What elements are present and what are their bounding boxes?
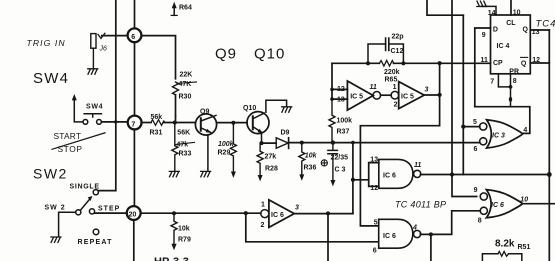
svg-text:SW2: SW2: [33, 166, 68, 182]
junction: down branch tee: [326, 211, 330, 215]
svg-text:R79: R79: [178, 237, 191, 244]
svg-text:6: 6: [474, 146, 478, 153]
wire: R31 to Q9 base: [164, 122, 195, 124]
wire: Q9 emitter to ground: [207, 135, 209, 171]
svg-text:TC40: TC40: [536, 18, 555, 29]
wire: IC6#1 tied inputs bracket: [369, 163, 379, 187]
wire: node 20 to bottom edge: [133, 220, 135, 261]
wire: right bus x=549.3 down to bottom: [548, 30, 550, 261]
svg-text:11: 11: [414, 162, 421, 169]
svg-text:IC 6: IC 6: [271, 212, 284, 219]
svg-text:7: 7: [131, 121, 135, 128]
resistor R65 220k: [379, 61, 394, 67]
SW2 arm: [80, 198, 90, 210]
capacitor C3 22/35 electrolytic: [332, 143, 334, 151]
svg-text:10: 10: [513, 10, 521, 17]
wire: IC5b output to node: [424, 94, 439, 96]
svg-text:5: 5: [374, 219, 378, 226]
wire: IC4 pin 7 strap: [498, 74, 510, 87]
svg-text:CP: CP: [493, 60, 503, 67]
wire: IC4 pin 10 to top edge: [510, 0, 512, 15]
svg-text:47k: 47k: [177, 141, 189, 148]
wire: node bus x=134.5 top edge to node 6: [134, 0, 136, 28]
wire: PR/IC3-output rail: [475, 107, 530, 134]
wire: IC4 pin 14 to ground: [482, 6, 497, 15]
svg-text:SINGLE: SINGLE: [70, 184, 100, 191]
svg-text:HP-3-3: HP-3-3: [154, 256, 189, 261]
junction: pin7/pin8: [509, 85, 513, 89]
svg-text:20: 20: [129, 211, 137, 218]
wire: V2 vertical down to output rail: [462, 15, 464, 174]
svg-text:C 3: C 3: [335, 166, 346, 173]
junction: output branch: [429, 232, 433, 236]
svg-text:R29: R29: [218, 149, 231, 156]
svg-text:CL: CL: [506, 20, 516, 27]
transistor Q10: [247, 112, 269, 134]
svg-text:47K: 47K: [179, 81, 192, 88]
junction: SW4 wire x left bus: [114, 120, 117, 123]
svg-text:12: 12: [370, 185, 378, 192]
ground (SW2): [51, 237, 61, 242]
svg-text:9: 9: [482, 32, 486, 39]
svg-text:13: 13: [370, 157, 378, 164]
wire: osc out down-left to NAND2 pin 5: [360, 95, 439, 226]
resistor R51 8.2k: [482, 254, 521, 261]
svg-text:11: 11: [370, 84, 377, 91]
wire: D9 to IC3 pin 6 rail: [289, 142, 480, 144]
ground (R33): [169, 171, 179, 176]
svg-text:R33: R33: [179, 151, 192, 158]
svg-text:SW4: SW4: [86, 103, 103, 110]
svg-text:J6: J6: [99, 46, 108, 53]
svg-text:R51: R51: [518, 244, 531, 251]
svg-text:R37: R37: [337, 129, 350, 136]
wire: IC6b output to right edge: [523, 203, 555, 205]
nand IC6 #2 (5,6 -> 4): [379, 219, 413, 248]
junction: C3-node vertical tee: [351, 141, 355, 145]
svg-text:7: 7: [490, 79, 494, 86]
wire: IC4 pin 12 (Qbar): [530, 62, 549, 64]
junction: R30/R33 on node7 wire: [173, 121, 177, 125]
junction: NAND2 pin6 branch: [244, 211, 248, 215]
inverter IC5a (12,13 -> 11): [347, 81, 373, 110]
svg-text:SW4: SW4: [33, 70, 69, 87]
resistor R64 (to +V): [173, 5, 175, 15]
wire: node 6 to R30 column: [141, 36, 175, 79]
or-gate IC6b (9,8 -> 10): [486, 190, 522, 218]
svg-text:Q9: Q9: [215, 46, 237, 63]
svg-text:14: 14: [488, 10, 496, 17]
wire: node 6 to node 7: [134, 42, 136, 115]
node 7: [128, 116, 142, 130]
connector J6: [91, 34, 96, 49]
node 6: [128, 28, 142, 42]
wire: C3-node vertical x=352.9: [352, 143, 354, 214]
svg-text:Q10: Q10: [254, 46, 285, 63]
svg-text:9: 9: [474, 187, 478, 194]
svg-text:Q: Q: [523, 27, 529, 34]
wire: TRIG IN jack to node 6: [102, 35, 128, 37]
wire: IC6#1 output rail y=174.5: [421, 174, 550, 176]
svg-text:10k: 10k: [178, 226, 190, 233]
svg-text:2: 2: [394, 101, 398, 108]
wire: node 7 to node 20: [133, 130, 135, 207]
svg-text:13: 13: [337, 96, 345, 103]
resistor R28 27k: [257, 143, 263, 175]
wire: SW2 pole to ground: [59, 212, 76, 236]
svg-text:TC 4011 BP: TC 4011 BP: [395, 200, 446, 210]
svg-text:IC 6: IC 6: [383, 173, 396, 180]
svg-text:1: 1: [393, 84, 397, 91]
svg-text:2: 2: [261, 222, 265, 229]
svg-text:STOP: STOP: [58, 144, 83, 154]
junction: V1 on output rail: [450, 172, 454, 176]
svg-text:R30: R30: [179, 94, 192, 101]
junction: C12 right tee: [401, 61, 405, 65]
wire: IC6a output to vertical: [294, 212, 353, 214]
diode D9: [262, 142, 277, 144]
junction: IC3 pin5 tee: [461, 125, 465, 129]
svg-text:10: 10: [520, 196, 528, 203]
junction: R79 tee: [172, 211, 176, 215]
svg-text:4: 4: [523, 127, 527, 134]
svg-text:D9: D9: [281, 129, 290, 136]
svg-text:D: D: [493, 26, 498, 33]
svg-text:3: 3: [425, 87, 429, 94]
junction: PR blob: [509, 97, 512, 102]
svg-text:R36: R36: [304, 165, 317, 172]
wire: Q10 collector up and to ground: [266, 100, 287, 112]
svg-text:Q10: Q10: [243, 105, 256, 112]
svg-text:Q: Q: [521, 61, 527, 68]
junction: rail end at right bus: [547, 172, 552, 177]
svg-text:4: 4: [412, 225, 417, 232]
capacitor C12 22p: [368, 44, 403, 63]
wire: START/STOP slash: [52, 133, 105, 150]
transistor Q9: [195, 114, 216, 135]
svg-text:1: 1: [261, 202, 265, 209]
wire: IC4 pin 13 (Q): [530, 29, 549, 31]
resistor R30 22K: [173, 82, 179, 95]
svg-text:10k: 10k: [305, 153, 318, 160]
svg-text:STEP: STEP: [98, 206, 120, 213]
resistor R37 100k: [329, 99, 335, 143]
junction: pin12 stub: [330, 88, 334, 92]
wire: input tee to bracket: [353, 179, 369, 181]
junction: R37/C3 on rail: [331, 140, 335, 144]
ground (IC4 pin14, inverted): [477, 1, 487, 6]
wire: branch down and right to NAND2 pin 6: [246, 213, 379, 242]
svg-text:C12: C12: [391, 48, 404, 55]
svg-text:IC 5: IC 5: [350, 94, 363, 101]
svg-text:IC 6: IC 6: [491, 202, 504, 209]
junction: emitter/R28/D9: [260, 141, 264, 145]
wire: IC4 pin 9 (D) down to PR rail: [475, 28, 491, 107]
wire: IC4 pin 8 / PR down to rail: [510, 74, 512, 107]
svg-text:SW 2: SW 2: [45, 204, 66, 211]
svg-text:22p: 22p: [392, 33, 404, 40]
wire: feedback rail y=63.3: [332, 62, 490, 64]
svg-text:12: 12: [532, 57, 540, 64]
svg-text:R64: R64: [179, 5, 192, 12]
svg-text:8.2k: 8.2k: [495, 239, 515, 250]
wire: Q10 emitter down to junction: [261, 134, 263, 143]
wire: node 20 rail: [141, 212, 261, 214]
svg-text:IC 3: IC 3: [492, 132, 505, 139]
wire: +V arrow to SW4 left contact: [74, 98, 83, 122]
svg-text:REPEAT: REPEAT: [78, 239, 113, 246]
wire: branch down x=430.9: [430, 234, 432, 261]
ground (Q10): [282, 107, 292, 112]
inverter IC6a (1,2 -> 3): [261, 210, 269, 218]
svg-text:3: 3: [295, 205, 299, 212]
wire: top jog from off-page to V2: [427, 0, 463, 15]
inverter IC5b (1,2 -> 3): [391, 91, 399, 99]
svg-text:IC 5: IC 5: [401, 94, 414, 101]
resistor R36 10k: [299, 143, 305, 175]
resistor R33 56K: [172, 123, 178, 172]
svg-text:R65: R65: [385, 76, 398, 83]
svg-text:27k: 27k: [265, 154, 277, 161]
svg-text:6: 6: [131, 34, 135, 41]
switch SW2 rotary: [76, 190, 99, 235]
svg-text:5: 5: [473, 119, 477, 126]
svg-text:56k: 56k: [151, 114, 163, 121]
node 20: [127, 206, 141, 220]
wire: osc out up to feedback rail: [439, 63, 441, 95]
wire: node 7 to R31: [142, 122, 152, 124]
resistor R29 100k: [230, 123, 236, 173]
svg-text:IC 4: IC 4: [497, 43, 510, 50]
nand IC6 #1 (13,12 -> 11): [379, 159, 413, 188]
svg-text:R31: R31: [150, 130, 163, 137]
svg-text:TRIG IN: TRIG IN: [27, 38, 66, 48]
junction: R29 tee: [231, 121, 235, 125]
wire: NAND2 output to IC6b pin 8: [420, 211, 480, 235]
wire: R30 bottom to node7 wire: [175, 116, 177, 123]
ground (J6): [88, 69, 98, 74]
svg-text:R28: R28: [265, 165, 278, 172]
junction: oscillator output node: [438, 93, 442, 97]
junction: pin13 stub: [330, 97, 334, 101]
svg-text:220k: 220k: [384, 69, 400, 76]
junction: R36 tee: [300, 141, 304, 145]
svg-text:START: START: [54, 131, 82, 141]
wire: left vertical bus x=115.8 from top edge down to SW2 SINGLE contact: [99, 0, 116, 191]
svg-text:8: 8: [478, 217, 482, 224]
wire: IC5a out to IC5b in: [381, 94, 392, 96]
svg-text:11: 11: [481, 57, 489, 64]
svg-text:12: 12: [337, 86, 345, 93]
wire: STEP contact to node 20: [95, 212, 127, 214]
wire: oscillator left vertical and input stubs: [332, 63, 347, 99]
svg-text:22K: 22K: [180, 72, 193, 79]
IC4 D flip-flop: [491, 15, 531, 74]
svg-text:13: 13: [532, 29, 540, 36]
arrow up (SW4 supply): [72, 94, 77, 100]
wire: branch down x=328 to bottom: [327, 213, 329, 261]
svg-text:56K: 56K: [177, 130, 190, 137]
wire: Q9 to Q10 base: [217, 122, 248, 124]
junction: feedback rail tap: [438, 61, 442, 65]
ground (Q9): [201, 171, 211, 176]
svg-text:8: 8: [513, 78, 517, 85]
junction: C12 left tee: [366, 61, 370, 65]
wire: IC3 pin 5: [463, 126, 480, 128]
svg-text:100k: 100k: [218, 141, 235, 148]
svg-text:IC 6: IC 6: [383, 233, 396, 240]
svg-text:100k: 100k: [337, 117, 353, 124]
wire: V1 bus from top edge down to IC6b pin 9: [452, 0, 477, 197]
or-gate IC3 (5,6 -> 4): [487, 120, 523, 148]
wire: SW4 right contact to node 7: [102, 121, 128, 123]
svg-text:22/35: 22/35: [331, 154, 349, 161]
svg-text:6: 6: [373, 247, 377, 254]
resistor R31 56k: [151, 120, 164, 126]
svg-text:Q9: Q9: [200, 109, 209, 116]
resistor R79 10k: [171, 213, 177, 244]
switch SW4 pushbutton: [83, 114, 101, 125]
junction: NAND1 input tee: [351, 178, 355, 182]
